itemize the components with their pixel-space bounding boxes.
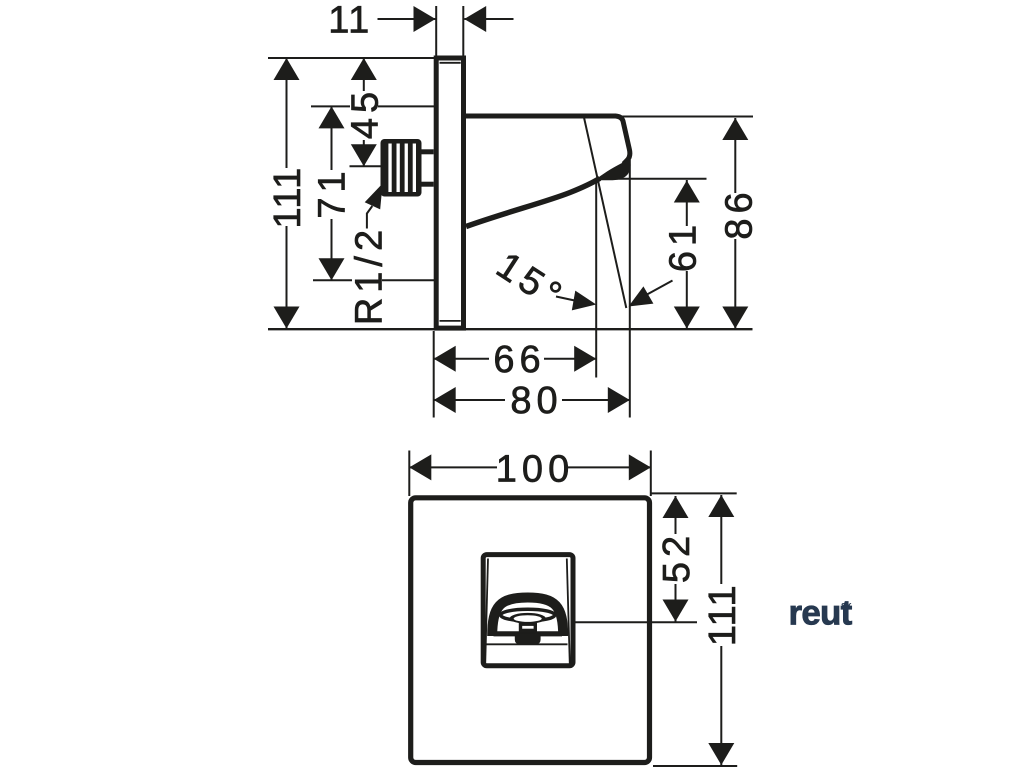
svg-text:111: 111 (702, 584, 744, 646)
inlet nipple neck bottom edge (419, 182, 434, 187)
wire: vertical extension line at spout outlet x=596 (595, 179, 597, 378)
arrowhead dim 111 left bottom (274, 307, 300, 329)
svg-text:80: 80 (510, 380, 562, 422)
inlet nipple neck (419, 149, 434, 186)
wire: dim 100 extension right (650, 451, 652, 497)
arrowhead dim 71 bottom (319, 258, 345, 280)
arrowhead dim 61 bottom (674, 307, 700, 329)
label 61 (668, 226, 696, 271)
spout top and nose profile (464, 116, 630, 164)
arrowhead dim 61 top (674, 181, 700, 203)
wire: dim 52 line (675, 496, 677, 622)
arrowhead dim 111 right top (708, 495, 734, 517)
wire: dim 100 line (409, 466, 651, 468)
label 111 right (707, 584, 736, 646)
arrowhead dim 86 top (722, 118, 748, 140)
wire: dim 71 line (331, 106, 333, 280)
arrowhead dim 52 top (663, 496, 689, 518)
recess wall left (485, 559, 488, 665)
aerator center slot (514, 615, 542, 622)
plate cap seam top (440, 62, 461, 64)
wire: extension line right of dim 11 (462, 6, 464, 57)
arrowhead 15 deg at slanted line (624, 286, 654, 315)
outlet tab lower block (515, 633, 541, 644)
svg-text:R1/2: R1/2 (349, 225, 391, 325)
arrowhead dim 80 left (434, 387, 456, 413)
svg-text:61: 61 (663, 220, 705, 272)
wire: dim 86 line (734, 118, 736, 329)
wire: leader 15 deg to vertical line (556, 297, 577, 302)
spout opening front view frame (483, 555, 573, 666)
wire: wall baseline (268, 328, 753, 330)
svg-text:100: 100 (496, 449, 574, 491)
arrowhead dim 52 bottom (663, 600, 689, 622)
wire: extension line dim 86 from spout top (620, 116, 753, 118)
svg-text:52: 52 (656, 531, 698, 583)
label 111 left (272, 168, 300, 226)
wire: dim 100 extension left (408, 451, 410, 497)
label 80 (505, 381, 562, 419)
arrowhead dim 66 right (574, 346, 596, 372)
wire: dim 111 right line (720, 495, 722, 765)
svg-text:111: 111 (267, 166, 309, 228)
thread stripe 3 (405, 144, 408, 193)
label 45 (350, 91, 378, 140)
thread stripe 2 (397, 144, 400, 193)
spout front bottom bar (494, 631, 563, 636)
wire: bottom extension for dim 111 (653, 765, 737, 767)
arrowhead dim 11 left (414, 6, 436, 32)
svg-text:86: 86 (719, 187, 761, 239)
plate cap seam bottom (440, 320, 461, 322)
label 52 (661, 534, 690, 584)
outlet tab (521, 624, 536, 630)
arrowhead dim 71 top (319, 106, 345, 128)
wire: tick line dim 71 top (311, 105, 436, 107)
wire: dim 11 right shaft (464, 18, 513, 20)
wire: slanted 15 degree reference line (584, 118, 626, 309)
wire: extension from outlet center for dim 52 (538, 621, 698, 623)
arrowhead dim 80 right (608, 387, 630, 413)
arrowhead dim 111 right bottom (708, 743, 734, 765)
arrowhead dim 11 right (464, 6, 486, 32)
arrowhead dim 45 top (351, 58, 377, 80)
aerator center ring (510, 613, 546, 624)
wire: tick line dim 45 bottom (350, 165, 381, 167)
wire: leader 15 deg to slanted line (647, 281, 673, 295)
thread stripe 1 (388, 144, 391, 193)
wire: dim 11 left shaft (378, 18, 436, 20)
svg-text:45: 45 (344, 87, 386, 139)
spout outlet lip (595, 159, 631, 180)
wire: dim 66 line (434, 358, 597, 360)
wire: dim 80 line (434, 399, 630, 401)
wire: tick line dim 61 from outlet (605, 178, 707, 180)
spout bottom curve (466, 178, 600, 226)
arrowhead 15 deg at vertical line (572, 291, 598, 315)
arrowhead dim 66 left (434, 346, 456, 372)
svg-text:11: 11 (328, 0, 370, 42)
aerator outer ellipse (501, 609, 555, 621)
thread stripe 4 (413, 144, 416, 193)
wire: leader R1/2 (367, 206, 372, 229)
inlet nipple neck top edge (419, 149, 434, 154)
wire: dim 61 line (686, 180, 688, 329)
wire: tick line dim 71 bottom (313, 279, 436, 281)
label R1/2 (352, 229, 382, 324)
arrowhead R1/2 leader (365, 180, 391, 209)
wire: dim 111 left line (286, 58, 288, 329)
arrowhead dim 100 right (629, 454, 651, 480)
label 100 (497, 449, 568, 486)
threaded inlet R1/2 body (381, 139, 422, 197)
arrowhead dim 86 bottom (722, 307, 748, 329)
svg-text:66: 66 (493, 339, 545, 381)
wire: top extension line at plate top (268, 57, 437, 59)
recess floor edge (486, 643, 568, 645)
spout arch front view (492, 598, 563, 637)
wire: top extension for dims 52 and 111 (650, 492, 737, 494)
arrowhead dim 100 left (409, 454, 431, 480)
svg-text:sk: sk (841, 600, 852, 611)
label 66 (489, 340, 544, 377)
arrowhead dim 45 bottom (351, 144, 377, 166)
wire: vertical extension line below plate x=434 (433, 331, 435, 418)
label 86 (724, 193, 752, 239)
arrowhead dim 111 left top (274, 58, 300, 80)
wire: dim 45 line (363, 58, 365, 166)
wire: vertical extension line at spout nose x=630 (629, 160, 631, 418)
recess wall right (567, 559, 570, 665)
label 71 (317, 170, 345, 219)
escutcheon plate side view body (436, 58, 463, 328)
svg-text:71: 71 (312, 166, 354, 218)
wire: extension line left of dim 11 (435, 6, 437, 57)
wall plate front view (411, 498, 650, 763)
